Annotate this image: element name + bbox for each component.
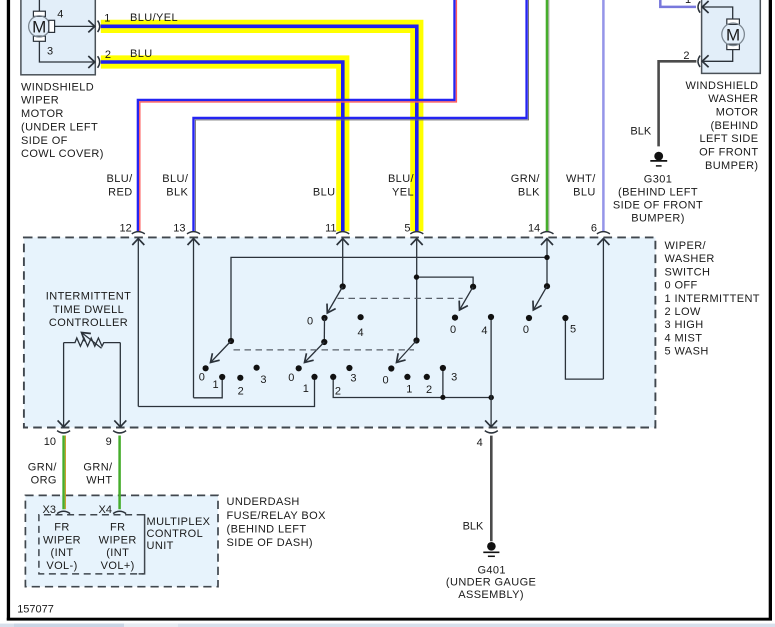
svg-text:BLU: BLU [130, 48, 153, 60]
resistor R (variable) [64, 333, 121, 349]
svg-text:COWL COVER): COWL COVER) [21, 148, 104, 160]
wire BLK switch pin4 to G401 [490, 436, 493, 542]
svg-text:0: 0 [450, 324, 456, 336]
svg-text:CONTROL: CONTROL [147, 528, 204, 540]
windshield washer motor box [702, 0, 761, 73]
washer motor caption [685, 80, 758, 172]
svg-text:3: 3 [260, 374, 266, 386]
svg-text:G401: G401 [477, 564, 506, 576]
svg-text:0: 0 [523, 324, 529, 336]
svg-text:(UNDER GAUGE: (UNDER GAUGE [446, 577, 536, 589]
switch pin 9 exit connector [113, 431, 126, 433]
wafer M lower pivot and arm [305, 339, 328, 363]
wire BLU blue core [101, 62, 343, 231]
svg-text:BLU: BLU [573, 186, 596, 198]
resistor lead to pin 10 [63, 343, 65, 427]
svg-text:0 OFF: 0 OFF [665, 280, 698, 292]
svg-text:(BEHIND LEFT: (BEHIND LEFT [227, 523, 307, 535]
wiper/washer switch box [24, 237, 656, 427]
windshield wiper motor box [21, 0, 95, 75]
washer motor pin 2 connector arc [698, 56, 700, 67]
svg-text:12: 12 [120, 222, 132, 234]
svg-text:5: 5 [404, 222, 410, 234]
switch pin 11 connector [336, 232, 349, 287]
svg-text:(BEHIND: (BEHIND [710, 120, 758, 132]
svg-text:WIPER/: WIPER/ [665, 240, 707, 252]
wiper motor M1 symbol [29, 0, 55, 41]
svg-text:BLU/YEL: BLU/YEL [130, 12, 178, 24]
pin13 wire to wafer L contact 1 [194, 377, 223, 398]
intermittent controller caption [46, 291, 131, 330]
pin6 wire to wash contact 5 [565, 318, 603, 379]
svg-text:157077: 157077 [17, 603, 54, 615]
svg-text:3: 3 [451, 371, 457, 383]
G401 caption [446, 564, 536, 601]
svg-text:4: 4 [358, 327, 364, 339]
resistor lead to pin 9 [119, 343, 121, 427]
svg-text:VOL+): VOL+) [101, 560, 135, 572]
bus from pin14 to wafer L feed [231, 255, 550, 341]
svg-text:4: 4 [481, 325, 487, 337]
wire BLU/YEL blue core [101, 26, 417, 231]
ground G301 [650, 152, 667, 166]
svg-text:WASHER: WASHER [665, 253, 715, 265]
svg-text:CONTROLLER: CONTROLLER [49, 317, 128, 329]
svg-text:WHT: WHT [86, 474, 112, 486]
pin5 branch to upper-right wafer [414, 274, 473, 286]
svg-text:2: 2 [335, 386, 341, 398]
label 4 at G401 pin [0, 0, 1, 1]
svg-text:5 WASH: 5 WASH [665, 346, 709, 358]
svg-text:10: 10 [44, 436, 56, 448]
svg-text:2: 2 [238, 386, 244, 398]
svg-text:BLK: BLK [630, 125, 651, 137]
svg-text:FR: FR [54, 522, 69, 534]
svg-text:SIDE OF DASH): SIDE OF DASH) [227, 537, 314, 549]
svg-text:MOTOR: MOTOR [21, 108, 64, 120]
upper-right wafer contacts 0 and 4 [452, 314, 494, 321]
svg-text:2: 2 [105, 49, 111, 61]
svg-text:13: 13 [173, 222, 185, 234]
svg-text:0: 0 [383, 375, 389, 387]
svg-text:FR: FR [110, 522, 125, 534]
svg-text:0: 0 [288, 372, 294, 384]
wire BLU/RED red tracer [140, 0, 457, 231]
svg-text:11: 11 [325, 222, 336, 234]
svg-text:GRN/: GRN/ [28, 461, 58, 473]
svg-text:1: 1 [303, 383, 309, 395]
svg-text:0: 0 [307, 316, 313, 328]
svg-text:RED: RED [108, 186, 132, 198]
svg-text:BLK: BLK [463, 520, 484, 532]
upper-right wafer pivot and arm (pin 5 branch) [460, 284, 477, 310]
svg-text:UNIT: UNIT [147, 540, 174, 552]
G301 caption [613, 173, 703, 224]
washer motor M2 symbol [722, 19, 745, 50]
wafer M upper pivot and arm (pin 11) [327, 283, 346, 313]
wiper motor pin numbers [47, 8, 111, 61]
svg-text:WIPER: WIPER [99, 534, 137, 546]
svg-text:GRN/: GRN/ [83, 461, 113, 473]
svg-text:1: 1 [685, 0, 691, 6]
wire BLU/RED blue line (top to switch pin12) [138, 0, 455, 231]
svg-text:WASHER: WASHER [708, 93, 758, 105]
wire WHT/BLU lavender line (top to switch pin6) [602, 0, 605, 231]
svg-text:BLU/: BLU/ [107, 173, 134, 185]
label GRN/ORG [28, 461, 58, 486]
svg-text:FUSE/RELAY BOX: FUSE/RELAY BOX [227, 510, 327, 522]
svg-text:M: M [726, 26, 740, 45]
svg-text:MOTOR: MOTOR [716, 107, 759, 119]
svg-text:WIPER: WIPER [21, 95, 59, 107]
svg-text:6: 6 [591, 222, 597, 234]
svg-text:4: 4 [57, 8, 63, 20]
svg-text:BLU/: BLU/ [388, 173, 415, 185]
svg-text:14: 14 [528, 222, 540, 234]
switch bottom pin numbers [44, 436, 483, 449]
wiper motor pin 1 lead [55, 25, 95, 27]
underdash caption [227, 496, 327, 549]
svg-text:(INT: (INT [106, 547, 129, 559]
diagram number 157077 [17, 603, 54, 615]
wiper/washer switch caption [665, 240, 760, 358]
wire BLK washer pin2 to G301 [659, 61, 697, 146]
switch pin 5 connector [410, 232, 423, 341]
svg-text:BLU/: BLU/ [162, 173, 189, 185]
X3 connector arc [57, 511, 70, 513]
svg-text:BUMPER): BUMPER) [705, 160, 759, 172]
wire labels above switch [107, 173, 597, 199]
switch pin 13 connector [187, 232, 200, 398]
svg-text:WIPER: WIPER [43, 534, 81, 546]
svg-text:1 INTERMITTENT: 1 INTERMITTENT [665, 293, 760, 305]
washer motor pin 1 lead [702, 7, 733, 19]
pin14 wafer pivot and arm [533, 283, 550, 310]
svg-text:SIDE OF: SIDE OF [21, 135, 68, 147]
wafer N contacts [388, 365, 446, 380]
label BLK G401 [463, 520, 484, 532]
wafer M upper contacts 0 and 4 [321, 314, 363, 321]
svg-text:MULTIPLEX: MULTIPLEX [147, 516, 211, 528]
svg-text:4 MIST: 4 MIST [665, 332, 703, 344]
mechanical linkage dashed upper [338, 297, 463, 299]
contact bus to pin 4 [333, 368, 494, 400]
FR WIPER captions [43, 522, 137, 572]
wafer M lower contacts [296, 365, 353, 380]
washer motor pin 1 connector arc [698, 1, 700, 12]
switch pin 6 connector [597, 232, 610, 379]
svg-text:WINDSHIELD: WINDSHIELD [21, 81, 94, 93]
svg-text:2: 2 [683, 50, 689, 62]
label BLU/YEL top [130, 12, 178, 24]
washer motor pin 2 lead [702, 50, 733, 62]
switch pin 12 connector [132, 232, 145, 407]
wiper motor pin 2 connector arc [98, 56, 100, 68]
svg-text:M: M [32, 18, 46, 37]
switch contact labels [199, 316, 576, 398]
svg-text:BUMPER): BUMPER) [631, 212, 685, 224]
switch pin 10 exit connector [57, 431, 70, 433]
wiper motor caption [21, 81, 104, 160]
multiplex control unit box [25, 495, 218, 586]
svg-text:SWITCH: SWITCH [665, 266, 711, 278]
svg-text:1: 1 [406, 384, 412, 396]
svg-text:WINDSHIELD: WINDSHIELD [685, 80, 758, 92]
wire BLU/BLK blue line (top to switch pin13) [194, 0, 527, 231]
pin12 wire to wafer M contact 1 [138, 377, 314, 407]
multiplex inner FR WIPER box [39, 515, 145, 574]
frame right bar [769, 0, 772, 621]
pin14 wafer contact 0 and wash contact 5 [526, 315, 569, 321]
svg-text:ORG: ORG [31, 474, 57, 486]
svg-text:WHT/: WHT/ [566, 173, 596, 185]
svg-text:VOL-): VOL-) [46, 560, 77, 572]
svg-text:BLU: BLU [313, 186, 336, 198]
svg-text:1: 1 [104, 13, 110, 25]
svg-text:4: 4 [477, 437, 483, 449]
ground G401 [483, 542, 499, 556]
svg-text:3 HIGH: 3 HIGH [665, 319, 704, 331]
svg-text:5: 5 [570, 324, 576, 336]
wire BLU/YEL yellow highlight (wiper pin1 to switch pin5) [101, 26, 417, 231]
switch pin 4 exit connector [485, 431, 498, 433]
svg-text:OF FRONT: OF FRONT [699, 147, 758, 159]
svg-text:2: 2 [426, 384, 432, 396]
label BLU top [130, 48, 153, 60]
svg-text:G301: G301 [644, 173, 673, 185]
svg-text:(UNDER LEFT: (UNDER LEFT [21, 121, 98, 133]
wafer L pivot and arm [211, 338, 235, 363]
wire GRN/WHT switch pin9 to X4 [118, 436, 121, 510]
svg-text:ASSEMBLY): ASSEMBLY) [458, 589, 524, 601]
svg-text:(INT: (INT [51, 547, 74, 559]
washer motor pin numbers [683, 0, 691, 62]
svg-text:(BEHIND LEFT: (BEHIND LEFT [618, 186, 698, 198]
svg-text:3: 3 [47, 46, 53, 58]
svg-text:0: 0 [199, 371, 205, 383]
svg-text:UNDERDASH: UNDERDASH [227, 496, 300, 508]
label BLK G301 [630, 125, 651, 137]
svg-text:X3: X3 [43, 504, 56, 516]
frame bottom bar [7, 618, 772, 621]
wafer L contacts [203, 365, 260, 381]
wire GRN/BLK green line (top to switch pin14) [547, 0, 549, 231]
svg-text:1: 1 [213, 379, 219, 391]
mechanical linkage dashed lower [234, 349, 415, 351]
svg-text:SIDE OF FRONT: SIDE OF FRONT [613, 199, 703, 211]
taskbar strip [0, 624, 775, 627]
wire BLU/BLK black tracer [195, 0, 528, 231]
wire BLU yellow highlight (wiper pin2 to switch pin11) [101, 62, 343, 231]
label GRN/WHT [83, 461, 113, 486]
svg-text:2 LOW: 2 LOW [665, 306, 701, 318]
frame left bar [7, 0, 10, 621]
wire GRN/ORG switch pin10 to X3 [64, 436, 66, 510]
wiper motor pin 2 lead [39, 41, 94, 62]
wafer N pivot and arm (pin 5) [397, 337, 420, 362]
svg-text:INTERMITTENT: INTERMITTENT [46, 291, 131, 303]
svg-text:BLK: BLK [518, 186, 540, 198]
svg-text:3: 3 [350, 373, 356, 385]
wiper motor pin 1 connector arc [98, 21, 100, 32]
svg-text:GRN/: GRN/ [511, 173, 541, 185]
switch top pin numbers [120, 222, 597, 234]
svg-text:9: 9 [106, 436, 112, 448]
X4 connector arc [113, 511, 126, 513]
svg-text:LEFT SIDE: LEFT SIDE [699, 133, 758, 145]
multiplex caption [147, 516, 211, 552]
switch pin 14 connector [541, 232, 554, 287]
svg-text:BLK: BLK [166, 186, 188, 198]
svg-text:TIME DWELL: TIME DWELL [53, 304, 124, 316]
X3 X4 labels [43, 504, 112, 516]
link contact0 to wafer M lower pivot [323, 318, 325, 342]
wire BLU to washer pin1 [660, 0, 696, 7]
svg-text:YEL: YEL [392, 186, 414, 198]
pin 4 vertical from contact 4 [490, 317, 492, 427]
svg-text:X4: X4 [99, 504, 112, 516]
